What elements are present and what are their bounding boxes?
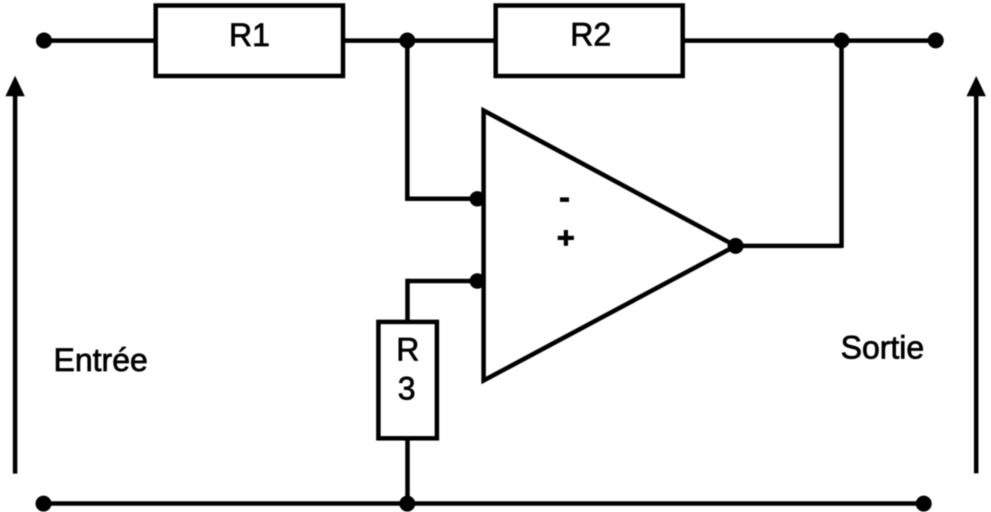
svg-text:R2: R2 [570,17,611,53]
svg-text:Entrée: Entrée [54,342,148,378]
svg-text:3: 3 [398,371,416,407]
svg-text:Sortie: Sortie [841,329,925,365]
svg-text:R1: R1 [229,17,270,53]
svg-text:R: R [396,332,419,368]
